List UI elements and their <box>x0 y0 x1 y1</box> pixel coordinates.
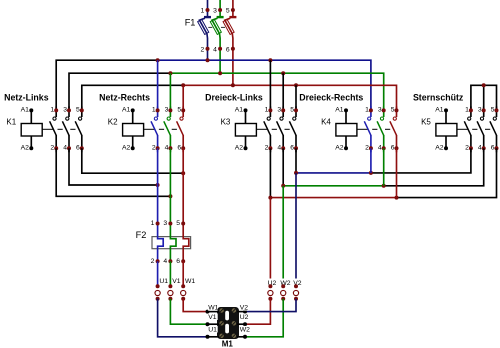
wire W2 net black segment to K5.4 <box>384 148 484 186</box>
contactor K4 coil <box>336 124 357 137</box>
node L1-K3 <box>268 58 272 62</box>
svg-text:3: 3 <box>165 107 169 114</box>
node L1-K2 <box>156 58 160 62</box>
svg-text:4: 4 <box>213 46 217 53</box>
svg-text:A1: A1 <box>122 107 131 114</box>
node K1.6-K2.6 <box>181 171 185 175</box>
motor M1 winding labels left <box>208 304 218 311</box>
contactor K2 coil <box>123 124 144 137</box>
svg-text:U2: U2 <box>240 314 249 321</box>
svg-text:2: 2 <box>152 144 156 151</box>
wire L2 bus green segment to K4.3 <box>170 73 383 110</box>
svg-text:A2: A2 <box>435 144 444 151</box>
node W2-K4.4 <box>382 184 386 188</box>
node U2-K4.6 <box>395 196 399 200</box>
svg-text:5: 5 <box>491 107 495 114</box>
svg-text:5: 5 <box>76 107 80 114</box>
svg-text:6: 6 <box>176 258 180 265</box>
svg-text:Netz-Rechts: Netz-Rechts <box>99 93 150 103</box>
svg-text:A1: A1 <box>235 107 244 114</box>
svg-text:2: 2 <box>265 144 269 151</box>
wire U1 feed (K2.2 to F2.1) <box>157 148 159 223</box>
svg-text:1: 1 <box>265 107 269 114</box>
svg-text:2: 2 <box>365 144 369 151</box>
svg-text:3: 3 <box>277 107 281 114</box>
wire W1 to motor <box>183 299 207 312</box>
svg-text:K2: K2 <box>108 117 118 126</box>
svg-text:5: 5 <box>290 107 294 114</box>
svg-text:V2: V2 <box>240 305 249 312</box>
wire U2 net black segment to K5.6 <box>397 148 497 197</box>
terminal U2 <box>267 279 279 287</box>
node L2-K3 <box>281 71 285 75</box>
svg-text:A2: A2 <box>235 144 244 151</box>
node L2-K2 <box>168 71 172 75</box>
svg-text:4: 4 <box>277 144 281 151</box>
svg-text:6: 6 <box>491 144 495 151</box>
node L3-F1 <box>231 83 235 87</box>
svg-text:F1: F1 <box>185 17 196 27</box>
contactor K3 coil <box>235 124 256 137</box>
node L1-F1 <box>206 58 210 62</box>
wire K3 pole feeds <box>269 60 271 110</box>
svg-text:Dreieck-Links: Dreieck-Links <box>205 93 263 103</box>
wire W1 feed (K2.6 to F2.5) <box>182 148 184 223</box>
node K1.4-K2.2 <box>156 183 160 187</box>
K4 actuator linkage <box>357 128 368 130</box>
wire K4 outputs down <box>370 148 372 173</box>
svg-text:A1: A1 <box>335 107 344 114</box>
svg-text:2: 2 <box>201 46 205 53</box>
svg-text:U1: U1 <box>159 278 168 285</box>
svg-text:3: 3 <box>378 107 382 114</box>
svg-text:5: 5 <box>176 220 180 227</box>
wire L1 bus black segment K1.1 to K2.1 <box>56 60 157 110</box>
svg-text:A2: A2 <box>335 144 344 151</box>
terminal V2 <box>292 279 304 287</box>
wire V2 to motor <box>245 299 296 312</box>
node W2-K3.4 <box>281 184 285 188</box>
wire V1 feed (K2.4 to F2.3) <box>169 148 171 223</box>
wire star-point bus K5 <box>471 85 497 110</box>
svg-text:1: 1 <box>201 7 205 14</box>
svg-text:W2: W2 <box>240 327 250 334</box>
svg-text:5: 5 <box>391 107 395 114</box>
wire K1.4 to K2.2 <box>69 148 158 185</box>
F1 linkage <box>208 26 212 28</box>
motor M1 left pins <box>208 311 220 313</box>
svg-text:K3: K3 <box>221 117 231 126</box>
node V2-K4.2 <box>369 171 373 175</box>
wire U2 net red segment <box>270 197 396 199</box>
svg-text:U1: U1 <box>208 327 217 334</box>
node V2-K3.6 <box>294 171 298 175</box>
svg-text:3: 3 <box>63 107 67 114</box>
svg-text:A1: A1 <box>435 107 444 114</box>
svg-text:Dreieck-Rechts: Dreieck-Rechts <box>299 93 363 103</box>
terminal W2 <box>280 279 292 287</box>
node star-K5.3 <box>482 83 486 87</box>
wire K2 pole feeds <box>157 60 159 110</box>
svg-text:3: 3 <box>213 7 217 14</box>
svg-text:1: 1 <box>465 107 469 114</box>
svg-text:Sternschütz: Sternschütz <box>413 93 464 103</box>
wire K1.2 to K2.4 <box>56 148 170 196</box>
svg-text:V1: V1 <box>208 314 217 321</box>
wire V2 net navy segment <box>296 172 371 174</box>
svg-text:A2: A2 <box>122 144 131 151</box>
svg-text:6: 6 <box>290 144 294 151</box>
motor M1 right pins <box>237 311 245 313</box>
K3 actuator linkage <box>256 128 267 130</box>
svg-text:6: 6 <box>226 46 230 53</box>
svg-text:Netz-Links: Netz-Links <box>4 93 49 103</box>
K5 actuator linkage <box>457 128 468 130</box>
wire K1.6 to K2.6 <box>82 148 183 173</box>
contactor K1 coil <box>21 124 42 137</box>
wire W2 net green segment <box>283 185 384 187</box>
svg-text:2: 2 <box>50 144 54 151</box>
wire L3 bus black segment K1.5 to K2.5 <box>82 85 183 110</box>
svg-text:W1: W1 <box>208 305 218 312</box>
wire L2 bus black segment K1.3 to K2.3 <box>69 73 170 110</box>
svg-text:3: 3 <box>478 107 482 114</box>
K1 actuator linkage <box>42 128 53 130</box>
svg-text:4: 4 <box>163 258 167 265</box>
svg-text:A1: A1 <box>21 107 30 114</box>
svg-text:4: 4 <box>378 144 382 151</box>
contactor K5 coil <box>436 124 457 137</box>
svg-text:2: 2 <box>465 144 469 151</box>
node U2-K3.2 <box>268 196 272 200</box>
svg-text:6: 6 <box>177 144 181 151</box>
svg-text:2: 2 <box>151 258 155 265</box>
svg-text:4: 4 <box>63 144 67 151</box>
svg-text:W1: W1 <box>185 278 195 285</box>
svg-text:A2: A2 <box>21 144 30 151</box>
svg-text:V1: V1 <box>172 278 181 285</box>
node L3-K3 <box>294 83 298 87</box>
wire V1 to motor <box>170 299 207 324</box>
svg-text:4: 4 <box>165 144 169 151</box>
wire L1 bus navy segment to K4.1 <box>158 60 371 110</box>
svg-text:F2: F2 <box>136 230 147 240</box>
wire U1 to motor <box>158 299 208 337</box>
svg-text:6: 6 <box>76 144 80 151</box>
node K1.2-K2.4 <box>168 194 172 198</box>
motor M1 terminal box <box>217 307 239 339</box>
wire V2 net black segment to K5.2 <box>371 148 471 173</box>
svg-text:1: 1 <box>50 107 54 114</box>
svg-text:K4: K4 <box>321 117 331 126</box>
svg-text:5: 5 <box>226 7 230 14</box>
svg-text:4: 4 <box>478 144 482 151</box>
motor M1 winding labels right <box>239 304 249 311</box>
svg-text:K5: K5 <box>421 117 431 126</box>
wire L3 bus red segment to K4.5 <box>183 85 396 110</box>
wire K3 outputs down <box>269 148 271 197</box>
K2 actuator linkage <box>144 128 155 130</box>
svg-text:3: 3 <box>163 220 167 227</box>
svg-text:1: 1 <box>152 107 156 114</box>
svg-text:6: 6 <box>391 144 395 151</box>
node L2-F1 <box>218 71 222 75</box>
wire U2 to motor <box>245 299 270 324</box>
svg-text:1: 1 <box>151 220 155 227</box>
node L3-K2 <box>181 83 185 87</box>
wire W2 to motor <box>245 299 283 337</box>
svg-text:M1: M1 <box>222 340 234 348</box>
svg-text:1: 1 <box>365 107 369 114</box>
svg-text:K1: K1 <box>6 117 16 126</box>
svg-text:5: 5 <box>177 107 181 114</box>
